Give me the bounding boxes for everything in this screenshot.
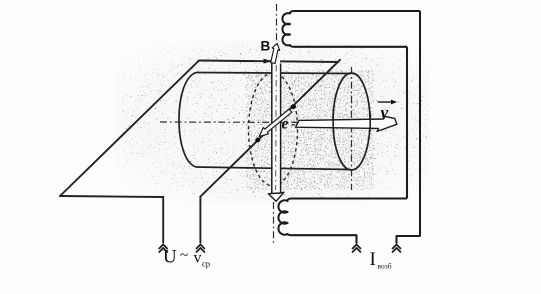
- svg-text:возб: возб: [378, 262, 392, 271]
- svg-text:U: U: [163, 247, 177, 268]
- svg-text:v: v: [381, 103, 389, 122]
- svg-text:B: B: [261, 39, 271, 54]
- svg-text:e: e: [282, 116, 289, 133]
- svg-text:v: v: [194, 250, 202, 267]
- svg-text:ср: ср: [202, 259, 210, 269]
- svg-text:I: I: [370, 249, 376, 270]
- svg-text:~: ~: [180, 248, 188, 264]
